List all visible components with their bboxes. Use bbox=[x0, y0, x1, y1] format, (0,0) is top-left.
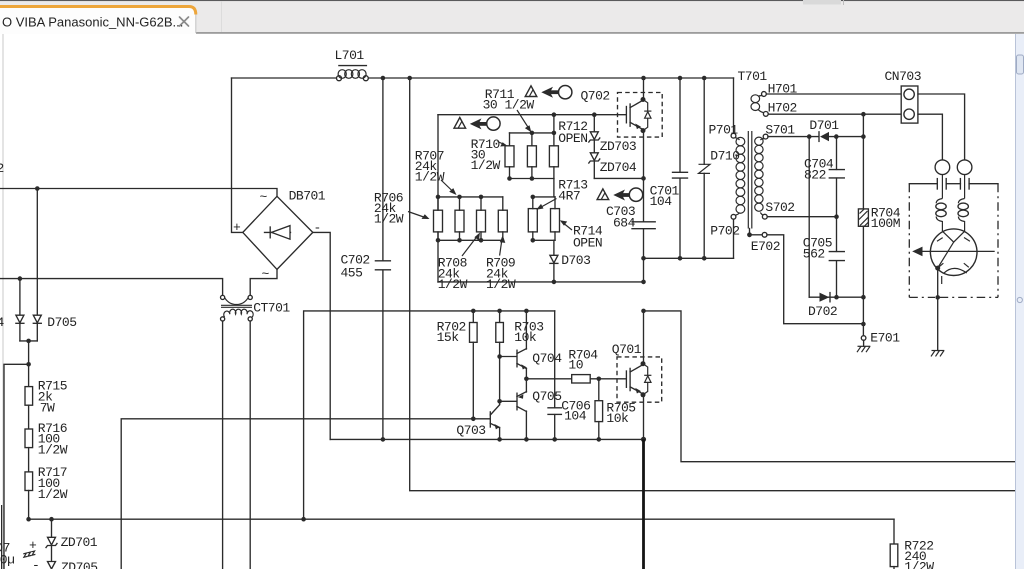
svg-text:70µ: 70µ bbox=[0, 553, 14, 568]
wire Q702 collector to rail bbox=[643, 78, 645, 99]
inductor L701 bbox=[335, 48, 369, 81]
capacitor C705 bbox=[803, 217, 845, 298]
svg-text:ZD705: ZD705 bbox=[61, 560, 98, 569]
svg-text:E702: E702 bbox=[751, 239, 780, 254]
label R708 with leader bbox=[438, 233, 480, 293]
junction R713 top bus bbox=[531, 195, 536, 200]
svg-text:1/2W: 1/2W bbox=[486, 277, 516, 292]
svg-text:S702: S702 bbox=[765, 200, 794, 215]
wire top B+ rail y=78 bbox=[232, 77, 734, 79]
wire Q702 gate line y=114.7 bbox=[438, 114, 625, 116]
svg-text:Q704: Q704 bbox=[532, 351, 562, 366]
wire Q701 collector riser bbox=[643, 311, 645, 363]
right scrollbar bbox=[1016, 34, 1024, 569]
zener ZD705 (cut at bottom) bbox=[48, 560, 98, 569]
diode D703 bbox=[550, 253, 591, 282]
tab close button bbox=[180, 17, 189, 26]
wire H702 to CN703 bbox=[768, 113, 901, 115]
svg-text:10k: 10k bbox=[514, 330, 537, 345]
svg-text:-: - bbox=[32, 558, 39, 569]
wire Q701 emitter to rail bbox=[643, 396, 645, 440]
label R714 OPEN with leader bbox=[560, 220, 603, 250]
junctions on gate line bbox=[552, 112, 597, 117]
wire to capacitor C707 (cut at left edge) bbox=[4, 364, 29, 569]
svg-text:L701: L701 bbox=[335, 48, 365, 63]
label R709 with leader bbox=[486, 235, 516, 292]
resistor R713 bbox=[528, 197, 537, 240]
svg-text:~: ~ bbox=[260, 190, 268, 205]
svg-text:104: 104 bbox=[564, 408, 587, 423]
svg-text:30 1/2W: 30 1/2W bbox=[483, 97, 535, 112]
svg-text:684: 684 bbox=[613, 216, 636, 231]
svg-text:562: 562 bbox=[803, 246, 825, 261]
diode D705 bbox=[33, 189, 76, 341]
scrollbar marker bbox=[1017, 297, 1022, 302]
junctions on driver rail bbox=[471, 309, 529, 314]
wire R713 group bottom bus bbox=[533, 239, 555, 241]
magnetron cathode ground bbox=[931, 268, 944, 356]
resistor R704 10 bbox=[568, 347, 625, 383]
svg-text:ZD701: ZD701 bbox=[61, 535, 98, 550]
svg-text:D701: D701 bbox=[809, 118, 839, 133]
junction emitter node y=178.4 bbox=[641, 176, 646, 181]
warning callout near Q702 bbox=[525, 86, 610, 104]
svg-text:H701: H701 bbox=[768, 81, 798, 96]
svg-text:D710: D710 bbox=[710, 149, 739, 164]
resistor R711 bbox=[527, 133, 536, 179]
wire collector node to right drop y=310.9 bbox=[644, 311, 1024, 462]
svg-text:D703: D703 bbox=[561, 253, 590, 268]
svg-text:-: - bbox=[314, 221, 321, 236]
wire H701 to CN703 bbox=[766, 93, 901, 95]
label R706 with leader bbox=[374, 191, 430, 227]
resistor R706 bbox=[434, 197, 443, 240]
svg-text:Q701: Q701 bbox=[612, 342, 642, 357]
junctions R706 group top bus bbox=[436, 195, 484, 200]
svg-text:822: 822 bbox=[804, 168, 826, 183]
svg-text:1/2W: 1/2W bbox=[415, 170, 445, 185]
T701 secondary winding S701-S702 bbox=[755, 123, 796, 220]
resistor R704 100M bbox=[858, 114, 900, 297]
surge absorber D710 bbox=[699, 78, 740, 258]
wire down to C707 tap bbox=[28, 341, 30, 387]
wire diode join bar bbox=[20, 340, 37, 342]
resistor R703 bbox=[496, 311, 544, 405]
svg-text:ZD703: ZD703 bbox=[600, 139, 637, 154]
label R710 with leader bbox=[471, 137, 508, 173]
resistor R715 bbox=[25, 379, 67, 430]
svg-text:CT701: CT701 bbox=[253, 301, 290, 316]
svg-text:D702: D702 bbox=[808, 304, 837, 319]
label R712 OPEN bbox=[558, 119, 587, 146]
current transformer CT701 bbox=[221, 295, 291, 321]
wire long vertical from rail to Q703 drive bbox=[410, 78, 1024, 491]
browser top edge line bbox=[0, 0, 1024, 1]
magnetron enclosure chassis with feedthrough capacitors bbox=[909, 179, 998, 298]
svg-text:100M: 100M bbox=[871, 216, 900, 231]
svg-text:T701: T701 bbox=[738, 69, 768, 84]
resistor group R710-R712 bottom bus bbox=[510, 178, 554, 180]
svg-text:D705: D705 bbox=[47, 315, 76, 330]
capacitor C704 bbox=[804, 137, 844, 217]
zener chain ZD703 ZD704 bbox=[589, 115, 637, 179]
junction C703 bottom node bbox=[641, 256, 646, 261]
transistor Q705 bbox=[497, 379, 561, 440]
svg-text:1/2W: 1/2W bbox=[438, 277, 468, 292]
resistor R708 bbox=[477, 197, 486, 240]
T701 heater winding H701 H702 bbox=[751, 92, 768, 117]
scrollbar top button bbox=[1017, 55, 1024, 74]
svg-text:O VIBA Panasonic_NN-G62B...: O VIBA Panasonic_NN-G62B... bbox=[2, 15, 183, 30]
svg-text:H702: H702 bbox=[768, 101, 797, 116]
wire resonant return y=258.3 bbox=[644, 257, 734, 259]
zener ZD701 bbox=[46, 519, 98, 561]
connector CN703 bbox=[885, 69, 922, 123]
resistor R717 bbox=[25, 465, 68, 519]
svg-text:+: + bbox=[29, 538, 37, 553]
svg-text:OPEN: OPEN bbox=[558, 131, 587, 146]
wire CT701 secondary left down bbox=[222, 321, 224, 569]
IGBT Q702 bbox=[618, 93, 663, 138]
wire rail to DB701 + terminal bbox=[232, 78, 243, 232]
svg-text:1/2W: 1/2W bbox=[38, 442, 68, 457]
svg-text:7W: 7W bbox=[40, 401, 55, 416]
transistor Q703 bbox=[456, 405, 499, 440]
svg-text:Q702: Q702 bbox=[581, 88, 610, 103]
diode D702 bbox=[808, 293, 866, 320]
svg-text:15k: 15k bbox=[437, 330, 460, 345]
diode D704 (label cut at edge) bbox=[0, 279, 24, 341]
svg-text:Q705: Q705 bbox=[532, 389, 561, 404]
wire CT701 secondary right down bbox=[249, 321, 251, 569]
svg-text:1/2W: 1/2W bbox=[374, 212, 404, 227]
wire D701 anode to D702 anode bbox=[808, 137, 810, 298]
diode D701 bbox=[807, 118, 866, 142]
resistor group R710-R712 stub and top bus bbox=[553, 115, 555, 133]
resistor R712 position bbox=[549, 133, 558, 179]
resistor R705 bbox=[595, 377, 636, 440]
warning callout near R707 bbox=[454, 117, 500, 130]
magnetron tube bbox=[912, 229, 995, 284]
thick ground feed line bbox=[642, 439, 645, 569]
capacitor C703 bbox=[606, 204, 655, 282]
T701 primary winding P701-P702 bbox=[709, 78, 745, 258]
resistor R702 bbox=[437, 311, 478, 419]
svg-text:CN703: CN703 bbox=[885, 69, 922, 84]
label R713 with leader bbox=[536, 178, 587, 210]
wire Q703 base drive y=418.8 bbox=[121, 419, 490, 569]
capacitor C701 bbox=[650, 78, 688, 258]
wire R713 group to D703 bbox=[553, 240, 555, 255]
T701 core bbox=[748, 131, 752, 229]
wire emitter bottom rail y=439.4 bbox=[330, 438, 643, 440]
capacitor C706 bbox=[548, 311, 590, 440]
label R707 with leader bbox=[415, 149, 457, 195]
resistor R707 bbox=[455, 197, 464, 240]
wire AC line 2 y=278.6 bbox=[0, 279, 223, 295]
IGBT Q701 bbox=[612, 342, 662, 402]
magnetron filament terminals bbox=[935, 160, 972, 175]
svg-text:ZD704: ZD704 bbox=[600, 160, 637, 175]
svg-text:10: 10 bbox=[568, 358, 583, 373]
svg-text:Q703: Q703 bbox=[456, 423, 485, 438]
svg-text:E701: E701 bbox=[870, 331, 900, 346]
junction R713 bottom bus bbox=[531, 238, 536, 243]
svg-text:455: 455 bbox=[341, 265, 363, 280]
tab strip bottom border bbox=[196, 32, 1024, 34]
wire driver output node y=378.8 bbox=[526, 378, 571, 380]
label R711 with leader bbox=[483, 87, 535, 132]
svg-text:+: + bbox=[233, 220, 241, 235]
bridge rectifier DB701 bbox=[233, 189, 326, 282]
junctions on gate network bottom rail bbox=[552, 280, 646, 285]
wire driver supply rail y=310.9 bbox=[304, 311, 555, 519]
wire AC line to bridge top y=188.5 bbox=[0, 189, 277, 197]
junction dots on top rail bbox=[381, 76, 707, 81]
junctions R710 group bottom bus bbox=[507, 176, 534, 181]
wire S701 to D701 bbox=[768, 136, 818, 138]
wire bridge bottom ~ to CT701 bbox=[250, 269, 277, 295]
warning callout near C701 bbox=[597, 188, 643, 201]
wire zener return to emitter node bbox=[594, 177, 643, 179]
capacitor C702 bbox=[341, 78, 391, 439]
tab strip background bbox=[0, 1, 1024, 34]
junction R702 to Q703 base bbox=[471, 417, 476, 422]
resistor R709 bbox=[498, 197, 507, 240]
junction driver output bbox=[524, 377, 529, 382]
svg-text:OPEN: OPEN bbox=[573, 236, 602, 251]
wire S702 to C704/C705 node bbox=[767, 216, 836, 218]
content left border bbox=[2, 34, 4, 569]
svg-text:2: 2 bbox=[0, 161, 4, 176]
junctions R710 group top bus bbox=[530, 131, 557, 136]
svg-text:S701: S701 bbox=[765, 123, 795, 138]
junction on AC wire 2 bbox=[18, 276, 23, 281]
capacitor C707 labels (cut) bbox=[0, 538, 39, 569]
wire CN703 to magnetron filament right bbox=[918, 94, 965, 160]
junction on AC wire bbox=[35, 186, 40, 191]
resistor group R713/R714 bbox=[553, 179, 555, 197]
wire gate network bottom rail y=281.9 bbox=[438, 281, 644, 283]
resistor R710 bbox=[505, 133, 514, 179]
terminal E702 bbox=[747, 229, 863, 324]
terminal E701 with ground bbox=[857, 297, 900, 352]
svg-text:P701: P701 bbox=[709, 123, 739, 138]
wire low-voltage bus y=519.2 bbox=[29, 518, 894, 520]
resistor R716 bbox=[25, 421, 68, 472]
wire CN703 to magnetron filament left bbox=[918, 114, 942, 160]
wire Q702 emitter down bbox=[643, 131, 645, 221]
junctions on low-voltage bus bbox=[26, 517, 306, 522]
svg-text:10k: 10k bbox=[606, 411, 629, 426]
svg-text:1/2W: 1/2W bbox=[471, 158, 501, 173]
magnetron filament chokes bbox=[936, 175, 969, 232]
active browser tab bbox=[0, 7, 196, 35]
wire DB701 minus down to bottom rail bbox=[313, 232, 330, 439]
svg-text:1/2W: 1/2W bbox=[38, 487, 68, 502]
transistor Q704 bbox=[497, 311, 562, 379]
junctions on resonant return bbox=[678, 256, 707, 261]
junctions R706 group bottom bus bbox=[436, 238, 484, 243]
svg-text:1/2W: 1/2W bbox=[904, 560, 934, 569]
svg-text:104: 104 bbox=[650, 194, 673, 209]
junctions on emitter rail bbox=[381, 437, 647, 442]
junction collector node bbox=[641, 309, 646, 314]
wire gate drive loop left edge x=438 bbox=[437, 115, 439, 282]
resistor group R706-R709 bottom bus bbox=[438, 239, 503, 241]
resistor group R706-R709 top bus bbox=[438, 196, 503, 198]
resistor R722 bbox=[890, 519, 934, 569]
svg-text:P702: P702 bbox=[710, 224, 739, 239]
svg-text:4R7: 4R7 bbox=[558, 189, 580, 204]
resistor R714 bbox=[551, 197, 560, 240]
svg-text:DB701: DB701 bbox=[289, 189, 326, 204]
